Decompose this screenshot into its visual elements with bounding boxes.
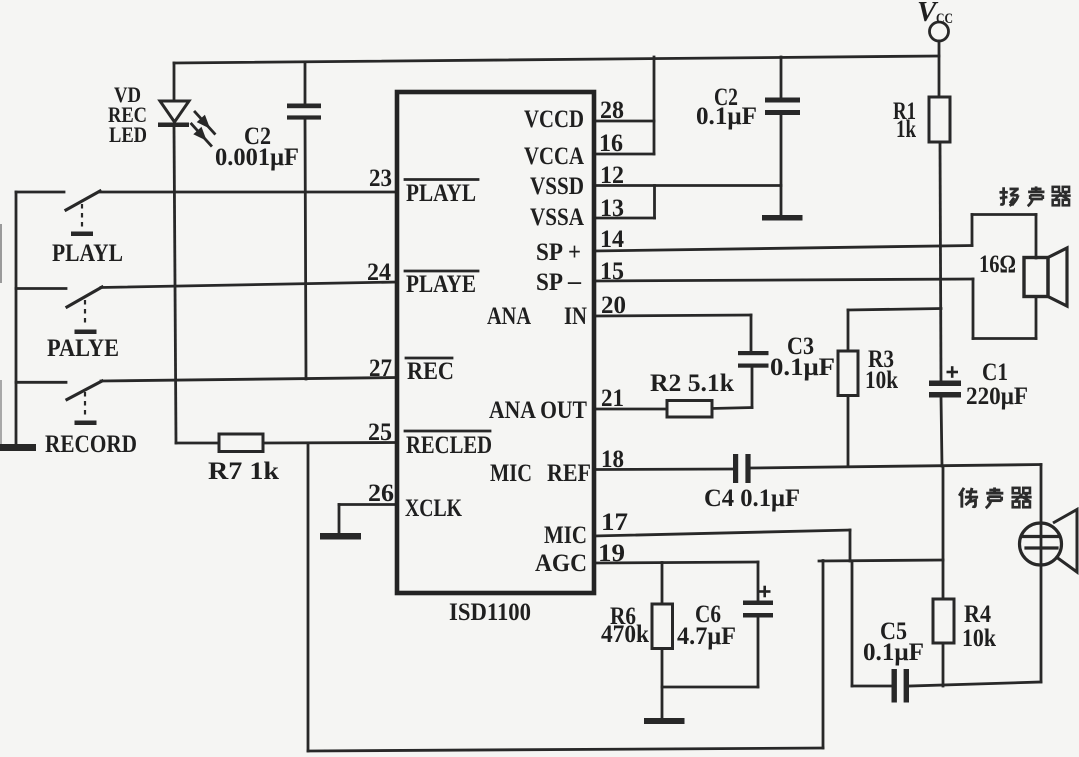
svg-text:19: 19 bbox=[598, 540, 625, 567]
svg-text:15: 15 bbox=[600, 258, 624, 285]
svg-text:VSSA: VSSA bbox=[530, 204, 584, 231]
svg-text:REF: REF bbox=[547, 460, 591, 487]
svg-text:10k: 10k bbox=[962, 625, 996, 652]
svg-text:SP: SP bbox=[536, 239, 563, 266]
svg-text:RECLED: RECLED bbox=[406, 432, 492, 459]
svg-text:C4 0.1μF: C4 0.1μF bbox=[704, 485, 800, 512]
svg-text:16: 16 bbox=[599, 130, 623, 157]
svg-text:16Ω: 16Ω bbox=[979, 251, 1016, 278]
svg-text:10k: 10k bbox=[865, 367, 898, 394]
svg-text:XCLK: XCLK bbox=[405, 495, 462, 522]
svg-text:PLAYE: PLAYE bbox=[406, 271, 476, 298]
svg-text:VCCA: VCCA bbox=[524, 143, 584, 170]
svg-text:MIC: MIC bbox=[490, 460, 532, 487]
svg-text:SP: SP bbox=[536, 269, 563, 296]
svg-text:17: 17 bbox=[601, 509, 628, 536]
svg-text:13: 13 bbox=[600, 195, 624, 222]
svg-text:REC: REC bbox=[407, 358, 454, 385]
svg-text:470k: 470k bbox=[601, 621, 649, 648]
svg-text:0.001μF: 0.001μF bbox=[215, 144, 299, 171]
svg-text:0.1μF: 0.1μF bbox=[863, 639, 924, 666]
svg-text:28: 28 bbox=[600, 97, 624, 124]
svg-text:23: 23 bbox=[369, 165, 392, 192]
svg-text:VCCD: VCCD bbox=[524, 106, 584, 133]
svg-text:24: 24 bbox=[367, 259, 391, 286]
svg-text:ANA OUT: ANA OUT bbox=[489, 397, 587, 424]
svg-text:18: 18 bbox=[601, 446, 624, 473]
svg-text:VSSD: VSSD bbox=[530, 173, 584, 200]
svg-text:R2 5.1k: R2 5.1k bbox=[650, 370, 734, 397]
svg-text:220μF: 220μF bbox=[966, 383, 1028, 410]
svg-text:20: 20 bbox=[601, 292, 626, 319]
svg-text:ISD1100: ISD1100 bbox=[449, 599, 531, 626]
svg-text:+: + bbox=[568, 239, 581, 266]
svg-text:IN: IN bbox=[564, 303, 587, 330]
svg-text:25: 25 bbox=[368, 419, 392, 446]
svg-text:0.1μF: 0.1μF bbox=[696, 103, 757, 130]
svg-text:AGC: AGC bbox=[535, 550, 587, 577]
svg-text:PLAYL: PLAYL bbox=[406, 180, 476, 207]
svg-text:PLAYL: PLAYL bbox=[52, 240, 123, 267]
svg-text:LED: LED bbox=[109, 122, 147, 147]
svg-text:R4: R4 bbox=[964, 601, 991, 628]
svg-text:1k: 1k bbox=[896, 116, 916, 143]
svg-text:C1: C1 bbox=[982, 359, 1008, 386]
svg-text:R7 1k: R7 1k bbox=[208, 458, 279, 485]
svg-text:27: 27 bbox=[369, 355, 392, 382]
svg-text:RECORD: RECORD bbox=[45, 431, 137, 458]
svg-text:ANA: ANA bbox=[487, 303, 531, 330]
svg-text:–: – bbox=[567, 268, 582, 295]
svg-text:MIC: MIC bbox=[544, 522, 587, 549]
svg-text:26: 26 bbox=[368, 480, 394, 507]
svg-text:12: 12 bbox=[600, 162, 624, 189]
svg-text:CC: CC bbox=[936, 11, 953, 27]
svg-text:4.7μF: 4.7μF bbox=[677, 623, 736, 650]
svg-text:PALYE: PALYE bbox=[47, 335, 119, 362]
svg-text:0.1μF: 0.1μF bbox=[770, 354, 835, 381]
svg-text:14: 14 bbox=[600, 226, 624, 253]
svg-text:21: 21 bbox=[601, 385, 624, 412]
